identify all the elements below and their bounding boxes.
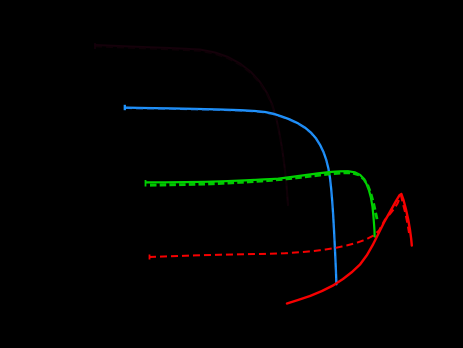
curve: blue dashed overlay (125, 108, 336, 284)
tick: maroon start cap (94, 43, 96, 49)
curve: green solid (146, 171, 375, 236)
curve: red solid (rising peak) (287, 194, 412, 304)
tick: red dashed start cap (149, 255, 151, 260)
curve: dark maroon dashed overlay (95, 47, 288, 207)
tick: green start cap (145, 180, 147, 187)
curve: blue solid (125, 108, 336, 285)
curve: red dashed (149, 196, 409, 258)
tick: blue start cap (124, 105, 126, 110)
curve: green dashed overlay (150, 173, 377, 222)
curve: dark maroon solid (lowest rate discharge) (95, 45, 288, 205)
